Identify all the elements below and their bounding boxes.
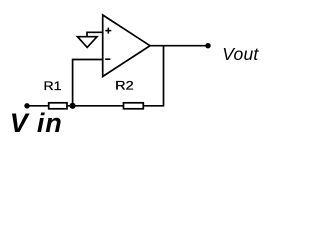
ground (78, 37, 98, 48)
svg-text:R1: R1 (44, 79, 62, 93)
terminal Vin (24, 103, 29, 108)
wire ground to non-inverting input (87, 32, 103, 36)
svg-text:R2: R2 (115, 78, 134, 92)
op-amp U1 (103, 15, 150, 77)
wire Vin to R1 (27, 105, 49, 107)
wire R2 to output branch (143, 46, 163, 106)
terminal Vout (205, 43, 210, 48)
resistor R1 (49, 103, 67, 109)
node A junction dot (70, 103, 76, 109)
resistor R2 (124, 103, 144, 109)
wire output (150, 45, 208, 47)
svg-text:Vout: Vout (222, 44, 259, 64)
svg-text:V in: V in (10, 108, 63, 138)
wire R1 to R2 (67, 105, 124, 107)
wire junction to inverting input (73, 60, 103, 106)
